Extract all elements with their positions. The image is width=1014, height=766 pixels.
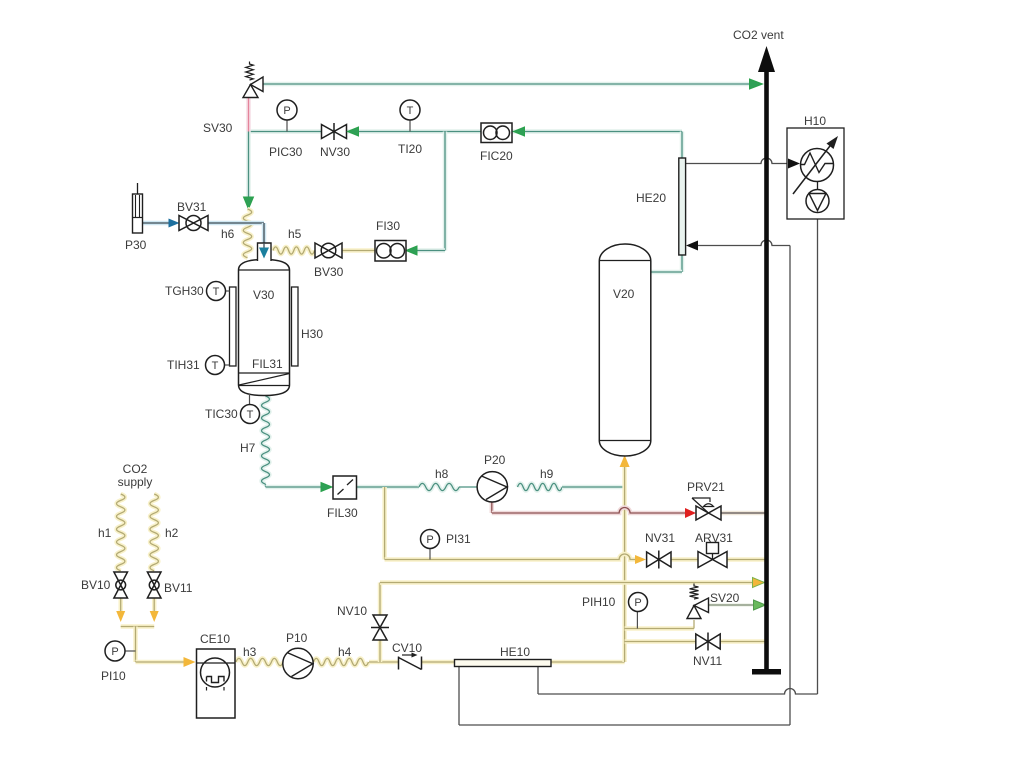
label CO2 vent [733, 28, 784, 42]
heat exchanger HE10 [455, 660, 552, 667]
wire NV11 header [625, 639, 696, 644]
svg-text:FI30: FI30 [376, 219, 400, 233]
label h5 [288, 227, 302, 241]
wire H10 return riser [789, 246, 791, 726]
arrow BV10 down [116, 611, 125, 622]
wire h9 hose [518, 483, 563, 490]
svg-text:h8: h8 [435, 467, 449, 481]
wire NV31 to ARV31 [671, 557, 698, 562]
flow indicator FI30 [375, 241, 406, 262]
svg-text:CO2 vent: CO2 vent [733, 28, 784, 42]
wire PIH10 header [380, 580, 754, 585]
valve NV11 [696, 633, 720, 651]
pump P10 [283, 648, 313, 678]
label P10 [286, 631, 308, 645]
label BV30 [314, 265, 344, 279]
filter FIL30 [333, 476, 357, 499]
wire h3 hose [236, 658, 283, 665]
instrument stub TGH30 [226, 290, 230, 292]
svg-text:SV20: SV20 [710, 591, 740, 605]
svg-text:CO2: CO2 [123, 462, 148, 476]
instrument stub PIC30 [286, 120, 288, 132]
valve NV30 [322, 123, 347, 140]
label NV30 [320, 145, 350, 159]
arrow into H10 [788, 159, 800, 169]
svg-text:supply: supply [118, 475, 153, 489]
svg-text:T: T [407, 105, 414, 117]
svg-text:PIH10: PIH10 [582, 595, 616, 609]
svg-text:CE10: CE10 [200, 632, 230, 646]
svg-text:SV30: SV30 [203, 121, 233, 135]
arrow after FIC20 [514, 127, 525, 136]
svg-text:PIC30: PIC30 [269, 145, 303, 159]
svg-text:CV10: CV10 [392, 641, 422, 655]
arrow BV11 down [150, 611, 159, 622]
label H10 [804, 114, 826, 128]
instrument TIH31 [206, 356, 225, 375]
label HE10 [500, 645, 530, 659]
label PRV21 [687, 480, 725, 494]
instrument PI10 [105, 641, 125, 661]
svg-text:T: T [212, 360, 219, 372]
svg-text:h4: h4 [338, 645, 352, 659]
label V20 [613, 287, 635, 301]
CO2 vent bottom bar [752, 669, 781, 675]
wire V20 riser [622, 466, 627, 662]
label h9 [540, 467, 554, 481]
svg-text:h5: h5 [288, 227, 302, 241]
label H7 [240, 441, 256, 455]
label PI31 [446, 532, 471, 546]
valve BV11 [147, 572, 161, 598]
svg-text:h1: h1 [98, 526, 112, 540]
label V30 [253, 288, 275, 302]
instrument TI20 [400, 100, 420, 120]
svg-text:V30: V30 [253, 288, 275, 302]
label BV11 [164, 581, 193, 595]
svg-text:TGH30: TGH30 [165, 284, 204, 298]
wire NV10 branch riser [378, 583, 383, 663]
svg-text:TIC30: TIC30 [205, 407, 238, 421]
wire SV20 feed [625, 620, 694, 629]
label H30 [301, 327, 323, 341]
svg-text:H7: H7 [240, 441, 256, 455]
arrow into FIL30 [321, 483, 332, 492]
wire h4 hose [314, 658, 369, 665]
wire h9 to V20 riser [562, 485, 625, 490]
svg-text:P: P [111, 646, 118, 658]
arrow into BV31 [169, 219, 180, 228]
jacket bar left of V30 [230, 287, 237, 366]
wire BV31 to V30 nozzle [208, 223, 264, 244]
wire PRV21 feed [492, 508, 686, 514]
wire HE20 drop to V20 [651, 132, 682, 273]
label P30 [125, 238, 147, 252]
instrument stub TIC30 [249, 394, 251, 405]
arrow vent header into CO2 vent [750, 79, 763, 89]
svg-text:HE20: HE20 [636, 191, 666, 205]
wire HE10 bottom-right drop [537, 666, 539, 694]
label CE10 [200, 632, 230, 646]
svg-text:TI20: TI20 [398, 142, 422, 156]
wire FIL30 to P20 [357, 485, 420, 490]
label TIC30 [205, 407, 238, 421]
vessel V30 nozzle [258, 243, 272, 261]
svg-text:ARV31: ARV31 [695, 531, 733, 545]
label TI20 [398, 142, 422, 156]
instrument TIC30 [241, 405, 260, 424]
wire BV30 to FI30 [342, 248, 375, 253]
wire SV30 riser red segment [246, 98, 251, 132]
arrow nozzle into V30 [259, 243, 269, 259]
label FIL31 [252, 357, 283, 371]
wire PRV21 to vent line [721, 511, 766, 516]
valve BV10 [114, 572, 128, 598]
svg-text:T: T [213, 286, 220, 298]
wire V30 feed drop [246, 132, 251, 199]
heater CE10 [197, 649, 236, 718]
label ARV31 [695, 531, 733, 545]
arrow CO2 vent top [758, 46, 775, 72]
svg-text:TIH31: TIH31 [167, 358, 200, 372]
syringe pump P30 [133, 183, 143, 233]
svg-text:P: P [283, 105, 290, 117]
instrument stub TI20 [409, 120, 411, 132]
label h4 [338, 645, 352, 659]
arrow into FI30 [406, 246, 417, 255]
wire SV30 vent header [263, 82, 752, 87]
svg-text:FIL30: FIL30 [327, 506, 358, 520]
arrow into CE10 [184, 657, 196, 667]
wire HE10 to V20 riser corner [551, 660, 625, 665]
check valve CV10 [399, 653, 422, 670]
svg-text:PI10: PI10 [101, 669, 126, 683]
svg-text:NV30: NV30 [320, 145, 350, 159]
wire HE20 return line [697, 240, 790, 246]
wire FI30 branch [415, 132, 445, 251]
instrument PI31 [421, 530, 440, 549]
svg-text:NV31: NV31 [645, 531, 675, 545]
heater bar H30 [292, 287, 299, 366]
svg-text:PRV21: PRV21 [687, 480, 725, 494]
wire h1 hose [117, 494, 125, 571]
CO2 vent main line [764, 70, 769, 670]
label CV10 [392, 641, 422, 655]
arrow into PRV21 [685, 508, 696, 518]
svg-text:P20: P20 [484, 453, 506, 467]
arrow after NV30 [348, 127, 359, 136]
svg-text:HE10: HE10 [500, 645, 530, 659]
svg-text:FIC20: FIC20 [480, 149, 513, 163]
label h1 [98, 526, 112, 540]
svg-text:h9: h9 [540, 467, 554, 481]
label HE20 [636, 191, 666, 205]
wire PI10 to CE10 [136, 660, 186, 665]
label NV10 [337, 604, 367, 618]
label BV10 [81, 578, 111, 592]
wire h8 to P20 [459, 486, 477, 488]
wire HE10 to H10 bottom run [538, 689, 818, 695]
label CO2 supply [118, 462, 153, 489]
label TGH30 [165, 284, 204, 298]
wire bottom return run [459, 724, 790, 726]
svg-text:FIL31: FIL31 [252, 357, 283, 371]
svg-text:h6: h6 [221, 227, 235, 241]
valve NV31 [647, 551, 671, 569]
svg-text:P: P [634, 597, 641, 609]
arrow into h6 [244, 197, 254, 209]
label NV31 [645, 531, 675, 545]
safety valve SV20 [687, 584, 709, 619]
vessel V20 [599, 244, 651, 456]
wire NV11 to vent line [720, 639, 766, 644]
wire HE10 bottom-left drop [458, 666, 460, 725]
heat exchanger HE20 [679, 158, 686, 255]
label FIC20 [480, 149, 513, 163]
valve BV31 [179, 216, 208, 231]
wire P20 discharge drop [490, 501, 495, 513]
svg-text:NV11: NV11 [693, 654, 722, 668]
wire ARV31 to vent line [727, 557, 766, 562]
wire h5 hose [273, 247, 315, 254]
label PIH10 [582, 595, 616, 609]
instrument stub PIH10 [636, 612, 638, 629]
wire H10 pump drop [817, 212, 819, 694]
svg-text:h2: h2 [165, 526, 179, 540]
label h8 [435, 467, 449, 481]
wire h2 hose [150, 494, 158, 571]
wire PIC30 header [249, 129, 683, 134]
svg-text:H30: H30 [301, 327, 323, 341]
arrow into NV31 [635, 555, 646, 564]
svg-text:BV11: BV11 [164, 581, 193, 595]
instrument stub TIH31 [225, 364, 230, 366]
safety valve SV30 [243, 62, 263, 98]
label FIL30 [327, 506, 358, 520]
pressure regulator PRV21 [692, 498, 721, 520]
svg-text:V20: V20 [613, 287, 635, 301]
label SV30 [203, 121, 233, 135]
svg-text:BV30: BV30 [314, 265, 344, 279]
label h2 [165, 526, 179, 540]
svg-text:BV10: BV10 [81, 578, 111, 592]
svg-text:P30: P30 [125, 238, 147, 252]
instrument stub PI10 [126, 650, 136, 652]
arrow into V20 [620, 455, 630, 467]
label PI10 [101, 669, 126, 683]
label NV11 [693, 654, 722, 668]
wire BV10 outlet [118, 598, 123, 612]
label FI30 [376, 219, 400, 233]
wire CV10 to HE10 [422, 660, 455, 665]
wire HE20 to H10 supply line [685, 158, 789, 164]
label PIC30 [269, 145, 303, 159]
instrument PIC30 [277, 100, 297, 120]
arrow into HE20 [686, 241, 698, 251]
wire SV20 outlet [709, 603, 756, 607]
valve BV30 [315, 243, 342, 258]
wire NV31 header [385, 554, 635, 560]
wire h6 hose [243, 209, 251, 258]
label h6 [221, 227, 235, 241]
valve NV10 [371, 615, 389, 640]
label TIH31 [167, 358, 200, 372]
wire H7 hose [262, 396, 323, 487]
instrument TGH30 [207, 282, 226, 301]
arrow PIH10 header into vent line [753, 578, 765, 588]
svg-text:PI31: PI31 [446, 532, 471, 546]
pump P20 [477, 472, 507, 502]
wire BV11 outlet [152, 598, 157, 612]
instrument PIH10 [629, 593, 648, 612]
arrow SV20 outlet into vent line [754, 600, 766, 610]
wire PI31 branch drop [382, 487, 387, 560]
valve ARV31 [698, 543, 727, 568]
svg-text:P10: P10 [286, 631, 308, 645]
svg-text:NV10: NV10 [337, 604, 367, 618]
label P20 [484, 453, 506, 467]
label BV31 [177, 200, 207, 214]
svg-text:T: T [247, 409, 254, 421]
wire P30 to BV31 [142, 221, 170, 226]
wire CE10 internal run [196, 661, 235, 663]
svg-text:h3: h3 [243, 645, 257, 659]
label h3 [243, 645, 257, 659]
heater unit H10 [787, 128, 844, 219]
svg-text:H10: H10 [804, 114, 826, 128]
svg-text:P: P [426, 534, 433, 546]
wire supply merge header [121, 627, 155, 663]
label SV20 [710, 591, 740, 605]
wire h4 to CV10 [369, 660, 398, 665]
vessel V30 [239, 260, 290, 396]
flow controller FIC20 [481, 123, 512, 143]
instrument stub PI31 [429, 548, 431, 560]
wire HE10 run [455, 661, 551, 663]
wire h8 hose [419, 483, 459, 490]
svg-text:BV31: BV31 [177, 200, 207, 214]
